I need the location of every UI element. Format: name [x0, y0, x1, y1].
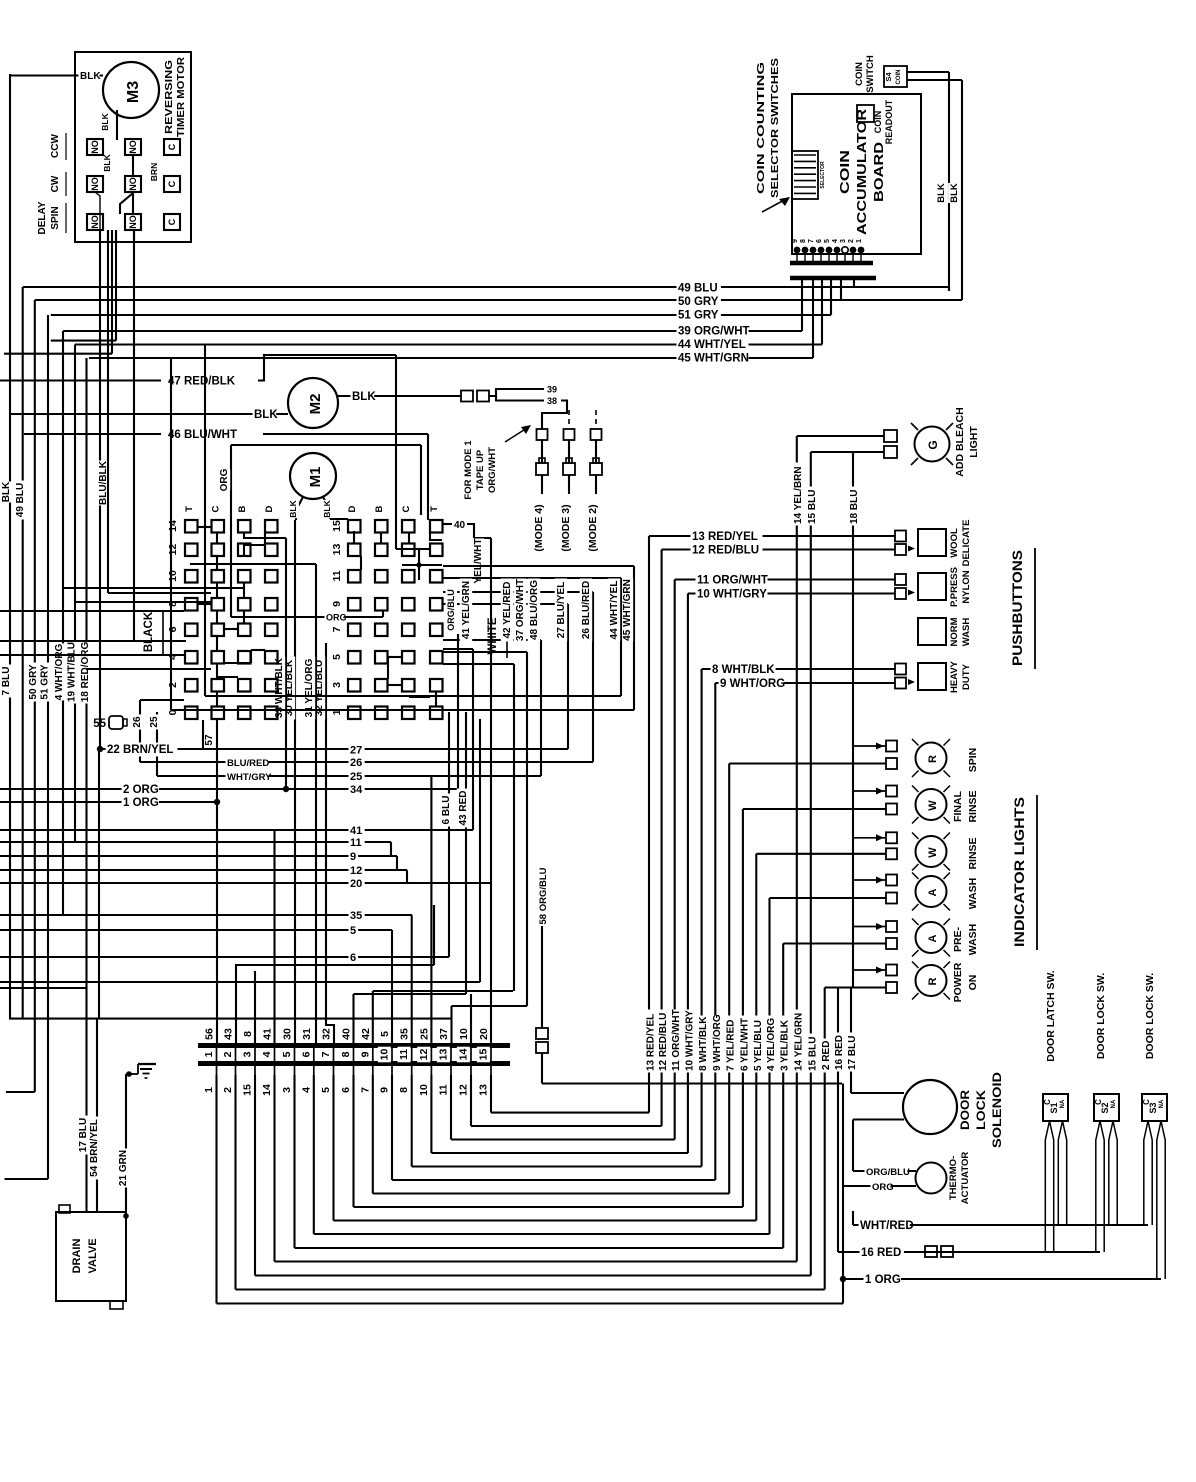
wire corner row y994: [354, 993, 467, 995]
svg-text:6: 6: [300, 1051, 312, 1057]
svg-text:C: C: [167, 180, 177, 187]
svg-text:LOCK: LOCK: [974, 1090, 988, 1130]
svg-text:5: 5: [350, 925, 356, 937]
thermo actuator: [916, 1163, 947, 1194]
svg-text:8: 8: [398, 1087, 410, 1093]
svg-text:BLK: BLK: [254, 409, 278, 421]
connector 16 RED: [925, 1246, 937, 1257]
svg-text:26: 26: [350, 757, 362, 769]
svg-text:25: 25: [418, 1028, 430, 1040]
wire light row final rinse: [743, 808, 886, 810]
svg-text:41: 41: [350, 825, 362, 837]
timer matrix WHITE section: [348, 520, 361, 533]
svg-text:ORG/BLU: ORG/BLU: [866, 1167, 910, 1178]
contact NO delay-spin CCW: [87, 139, 103, 155]
svg-text:14: 14: [167, 520, 179, 532]
wire 13 RED/YEL row: [649, 535, 895, 537]
label 14 YEL/BRN: [792, 463, 805, 526]
svg-text:7: 7: [808, 239, 815, 243]
wire 50 GRY: [840, 280, 842, 300]
svg-text:20: 20: [350, 878, 362, 890]
wire 25 left leg: [156, 712, 158, 776]
svg-text:7: 7: [331, 626, 343, 632]
svg-text:M1: M1: [307, 467, 324, 488]
wire 42 YEL/RED hook: [443, 663, 514, 665]
svg-text:55: 55: [93, 718, 106, 730]
harness U wire pin10: [391, 1104, 393, 1180]
wire ORG/BLU hook: [457, 634, 459, 789]
wire 17 BLU vertical right: [850, 988, 852, 1094]
svg-text:COIN COUNTING: COIN COUNTING: [755, 62, 767, 194]
svg-text:8: 8: [340, 1051, 352, 1057]
svg-text:2: 2: [222, 1051, 234, 1057]
wire 26 BLU/RED hook: [443, 591, 593, 593]
svg-text:ORG/BLU: ORG/BLU: [446, 589, 456, 631]
svg-text:DELICATE: DELICATE: [961, 520, 972, 567]
svg-text:BLK: BLK: [322, 499, 332, 517]
svg-text:ORG: ORG: [219, 468, 230, 491]
svg-text:9: 9: [792, 239, 799, 243]
svg-text:14 YEL/BRN: 14 YEL/BRN: [793, 466, 804, 524]
svg-text:11: 11: [331, 570, 343, 581]
wire 9 row: [0, 855, 397, 857]
svg-text:19 WHT/BLU: 19 WHT/BLU: [67, 642, 78, 702]
wire 26 left leg: [139, 700, 141, 762]
wire ORG row: [843, 1185, 916, 1187]
svg-text:42: 42: [360, 1028, 372, 1040]
contact NO delay spin: [87, 214, 103, 230]
wire M2 BLK left: [9, 413, 288, 415]
svg-text:HEAVY: HEAVY: [949, 660, 960, 693]
door lock solenoid: [903, 1080, 957, 1134]
svg-text:5: 5: [824, 239, 831, 243]
svg-text:27: 27: [350, 745, 362, 757]
svg-text:40: 40: [454, 520, 466, 531]
svg-text:BLK: BLK: [1, 481, 12, 502]
svg-text:13: 13: [331, 544, 343, 556]
wire corner row y991: [373, 990, 513, 992]
svg-text:NORM: NORM: [949, 617, 960, 646]
svg-text:BLU/RED: BLU/RED: [227, 758, 269, 769]
wire 30 YEL/BLK pin5: [294, 520, 296, 1044]
svg-text:3: 3: [281, 1087, 293, 1093]
svg-text:REVERSING: REVERSING: [164, 60, 175, 134]
svg-text:41: 41: [262, 1028, 274, 1040]
harness connector bottom labels: [216, 1066, 218, 1075]
svg-text:56: 56: [204, 1028, 216, 1040]
svg-text:WOOL: WOOL: [949, 528, 960, 558]
svg-text:ON: ON: [967, 975, 979, 991]
svg-text:16 RED: 16 RED: [834, 1035, 845, 1070]
wire solenoid upper: [851, 1092, 904, 1094]
svg-text:A: A: [927, 888, 939, 896]
svg-text:DOOR LOCK SW.: DOOR LOCK SW.: [1144, 973, 1156, 1059]
svg-text:5: 5: [281, 1051, 293, 1057]
contact C spin: [164, 214, 180, 230]
svg-text:BLK: BLK: [288, 499, 298, 517]
wire 16 RED vertical: [837, 988, 839, 1253]
svg-text:B: B: [374, 505, 385, 512]
svg-text:DELAY: DELAY: [37, 201, 48, 234]
svg-text:40: 40: [341, 1028, 353, 1040]
svg-text:12: 12: [458, 1084, 470, 1096]
harness U wire pin5: [293, 1104, 295, 1248]
wire 12 RED/BLU row: [662, 548, 895, 550]
wire 39 ORG/WHT: [801, 280, 803, 331]
wire row to matrix y611: [0, 610, 184, 612]
wire 49 BLU left vertical: [22, 287, 24, 1019]
svg-text:9: 9: [331, 601, 343, 607]
svg-text:13 RED/YEL: 13 RED/YEL: [646, 1014, 657, 1071]
svg-text:30: 30: [282, 1028, 294, 1040]
wire 16 RED row: [838, 1251, 1100, 1253]
arrow for mode 1: [505, 428, 527, 442]
svg-text:5: 5: [331, 654, 343, 660]
svg-text:44 WHT/YEL: 44 WHT/YEL: [609, 581, 620, 640]
wire light row prewash: [783, 942, 886, 944]
svg-text:10 WHT/GRY: 10 WHT/GRY: [684, 1010, 695, 1071]
wire 58 ORG/BLU: [541, 886, 543, 1028]
wire 43 RED vertical: [465, 712, 467, 994]
wire 18 RED/ORG vertical: [85, 358, 87, 1212]
harness U wire pin4: [273, 1104, 275, 1262]
mode connector column (MODE 2): [595, 410, 597, 428]
svg-text:NO: NO: [90, 215, 100, 229]
svg-text:1 ORG: 1 ORG: [123, 797, 159, 809]
svg-text:39 ORG/WHT: 39 ORG/WHT: [678, 326, 750, 338]
harness U wire pin14: [470, 1104, 472, 1126]
wire 1 ORG row: [843, 1278, 1161, 1280]
harness riser wire 5 YEL/BLU: [755, 854, 757, 1221]
svg-text:8 WHT/BLK: 8 WHT/BLK: [712, 664, 775, 676]
svg-text:SPIN: SPIN: [967, 748, 979, 773]
svg-text:SPIN: SPIN: [50, 206, 61, 229]
svg-text:14: 14: [458, 1049, 470, 1061]
wire light row rinse: [756, 853, 886, 855]
svg-text:NA: NA: [1111, 1099, 1117, 1108]
wire 48 BLU/ORG hook: [443, 639, 541, 641]
svg-text:COIN: COIN: [854, 62, 865, 86]
svg-text:12: 12: [350, 865, 362, 877]
svg-text:10: 10: [167, 570, 179, 582]
wire jumper row y353: [4, 353, 112, 355]
mode connector column (MODE 3): [568, 410, 570, 428]
harness riser wire 11 ORG/WHT: [674, 580, 676, 1140]
harness connector bar upper: [198, 1043, 510, 1048]
svg-text:R: R: [927, 977, 939, 985]
svg-text:BLK: BLK: [100, 112, 110, 130]
wire M1 right to D15: [330, 518, 348, 520]
svg-text:43: 43: [223, 1028, 235, 1040]
harness connector pin numbers: [202, 1050, 215, 1059]
svg-text:PRE-: PRE-: [952, 926, 964, 952]
wire 44 WHT/YEL mid vertical: [204, 345, 206, 697]
svg-text:M2: M2: [307, 394, 324, 415]
svg-text:D: D: [347, 505, 358, 512]
svg-text:57: 57: [204, 734, 215, 746]
switch S1 legs: [1045, 1121, 1049, 1252]
svg-text:INDICATOR LIGHTS: INDICATOR LIGHTS: [1012, 797, 1027, 947]
svg-text:READOUT: READOUT: [884, 99, 894, 144]
svg-text:34: 34: [350, 784, 363, 796]
harness wires below connector: [215, 1075, 217, 1104]
harness U wire pin2: [234, 1104, 236, 1290]
svg-text:4: 4: [832, 239, 839, 243]
pin upper wires: [273, 830, 275, 1044]
wire 9 WHT/ORG row: [715, 682, 895, 684]
wire 17 BLU drain: [0, 987, 87, 989]
svg-text:20: 20: [478, 1028, 490, 1040]
svg-text:45 WHT/GRN: 45 WHT/GRN: [678, 353, 749, 365]
wire 27 BLU/YEL hook: [443, 603, 568, 605]
harness U wire pin8: [352, 1104, 354, 1207]
harness riser wire 13 RED/YEL: [648, 536, 650, 1113]
svg-text:T: T: [184, 506, 195, 512]
svg-text:2: 2: [848, 239, 855, 243]
svg-text:9: 9: [379, 1087, 391, 1093]
svg-text:ACCUMULATOR: ACCUMULATOR: [854, 108, 869, 235]
coin switch S4 box: [884, 66, 907, 87]
svg-text:TAPE UP: TAPE UP: [475, 449, 486, 490]
door switch S2: [1094, 1094, 1119, 1121]
svg-text:S4: S4: [884, 72, 893, 82]
svg-text:58 ORG/BLU: 58 ORG/BLU: [538, 867, 549, 924]
wire row to matrix y593: [108, 592, 211, 594]
svg-text:37 ORG/WHT: 37 ORG/WHT: [515, 579, 526, 641]
svg-text:A: A: [927, 934, 939, 942]
pushbutton P.PRESS NYLON: [918, 573, 946, 600]
svg-text:15: 15: [331, 520, 343, 532]
wire 22 BRN/YEL / 27: [97, 746, 103, 752]
indicator light A WASH: [916, 876, 947, 907]
svg-text:(MODE 4): (MODE 4): [533, 504, 545, 551]
wire M2 BLK right: [338, 395, 461, 397]
matrix BLACK internal jumpers: [197, 526, 211, 528]
svg-text:54 BRN/YEL: 54 BRN/YEL: [89, 1119, 100, 1177]
wire 19 WHT/BLU vertical: [74, 345, 76, 843]
svg-text:S1: S1: [1049, 1102, 1059, 1113]
harness U wire pin7: [332, 1104, 334, 1221]
svg-text:11 ORG/WHT: 11 ORG/WHT: [697, 575, 768, 587]
svg-text:39: 39: [547, 385, 557, 395]
svg-text:C: C: [401, 505, 412, 512]
svg-text:FOR MODE 1: FOR MODE 1: [463, 440, 474, 500]
harness U wire pin9: [372, 1104, 374, 1194]
indicator light W RINSE: [916, 836, 947, 867]
svg-text:BLK: BLK: [352, 391, 376, 403]
svg-text:C: C: [167, 143, 177, 150]
svg-text:17 BLU: 17 BLU: [847, 1036, 858, 1070]
svg-text:BLK: BLK: [80, 71, 101, 82]
svg-text:BLACK: BLACK: [143, 611, 155, 652]
svg-text:27 BLU/YEL: 27 BLU/YEL: [556, 582, 567, 639]
svg-text:DOOR LOCK SW.: DOOR LOCK SW.: [1095, 973, 1107, 1059]
svg-text:WASH: WASH: [961, 618, 972, 647]
svg-text:SELECTOR: SELECTOR: [820, 161, 826, 189]
wire 18 BLU bus: [852, 452, 854, 988]
svg-text:P.PRESS: P.PRESS: [949, 567, 960, 607]
svg-text:BLK: BLK: [949, 183, 960, 203]
svg-text:DOOR: DOOR: [958, 1090, 972, 1130]
label BLK wires: [935, 183, 947, 203]
svg-text:50 GRY: 50 GRY: [678, 296, 719, 308]
svg-text:11: 11: [438, 1084, 450, 1095]
harness riser wire 9 WHT/ORG: [714, 683, 716, 1180]
pushbutton WOOL DELICATE: [918, 529, 946, 556]
svg-text:ORG/WHT: ORG/WHT: [487, 447, 498, 493]
svg-text:W: W: [927, 847, 939, 858]
svg-text:47 RED/BLK: 47 RED/BLK: [168, 376, 236, 388]
svg-text:D: D: [264, 505, 275, 512]
wire 57 pin1 vertical: [216, 719, 218, 1044]
svg-text:10: 10: [379, 1049, 391, 1061]
svg-text:R: R: [927, 755, 939, 763]
svg-text:35: 35: [399, 1028, 411, 1040]
svg-text:DOOR LATCH SW.: DOOR LATCH SW.: [1045, 970, 1057, 1061]
coin accumulator board box: [792, 94, 921, 254]
motor M2: [288, 378, 338, 428]
wire ORG/BLU row: [853, 1170, 916, 1172]
svg-text:18 RED/ORG: 18 RED/ORG: [80, 641, 91, 702]
svg-text:2 RED: 2 RED: [821, 1041, 832, 1070]
connector 55: [109, 716, 123, 729]
svg-text:41 YEL/GRN: 41 YEL/GRN: [461, 581, 472, 639]
svg-text:8 WHT/BLK: 8 WHT/BLK: [698, 1016, 709, 1071]
wire 8 row to pin3: [0, 981, 480, 983]
svg-text:BLK: BLK: [936, 183, 947, 203]
svg-text:25: 25: [350, 771, 362, 783]
svg-text:31: 31: [301, 1028, 313, 1040]
wire 1 ORG row: [0, 801, 217, 803]
wire 41 row: [0, 829, 473, 831]
svg-text:ORG: ORG: [326, 613, 347, 623]
svg-text:NO: NO: [90, 140, 100, 154]
svg-text:WHT/RED: WHT/RED: [860, 1220, 914, 1232]
wire 20 row: [0, 882, 491, 884]
svg-text:4: 4: [300, 1087, 312, 1093]
wire 11 ORG/WHT row: [675, 578, 895, 580]
svg-text:G: G: [926, 440, 940, 449]
svg-text:S3: S3: [1148, 1102, 1158, 1113]
motor M1: [290, 453, 336, 499]
svg-text:49 BLU: 49 BLU: [15, 483, 26, 517]
svg-text:33 WHT/BLK: 33 WHT/BLK: [274, 657, 285, 718]
svg-text:42 YEL/RED: 42 YEL/RED: [502, 581, 513, 638]
svg-text:FINAL: FINAL: [952, 790, 964, 821]
indicator light W RINSE: [916, 789, 947, 820]
wire 45 WHT/GRN hook: [443, 565, 634, 567]
svg-text:WASH: WASH: [967, 878, 979, 910]
label 15 BLU: [806, 487, 819, 526]
wire row to matrix y655: [0, 654, 186, 656]
svg-text:VALVE: VALVE: [87, 1238, 99, 1273]
wire 8 WHT/BLK row: [702, 668, 895, 670]
svg-text:6: 6: [816, 239, 823, 243]
timer motor box: [75, 52, 191, 242]
svg-text:TIMER MOTOR: TIMER MOTOR: [176, 56, 187, 137]
wire 26 row BLU/RED: [140, 761, 593, 763]
svg-text:8: 8: [242, 1031, 254, 1037]
svg-text:13: 13: [478, 1084, 490, 1096]
label 2 RED vertical: [820, 1039, 833, 1072]
wire 40 hook: [443, 523, 452, 525]
svg-text:15: 15: [478, 1049, 490, 1061]
svg-text:CW: CW: [50, 175, 61, 192]
svg-text:3: 3: [331, 682, 343, 688]
svg-text:(MODE 2): (MODE 2): [587, 504, 599, 551]
svg-text:WASH: WASH: [967, 924, 979, 956]
indicator light R ON: [916, 965, 947, 996]
svg-text:31 YEL/ORG: 31 YEL/ORG: [304, 658, 315, 717]
svg-text:6 BLU: 6 BLU: [441, 796, 452, 825]
svg-text:11: 11: [398, 1049, 410, 1060]
svg-text:LIGHT: LIGHT: [968, 426, 980, 458]
svg-text:11: 11: [350, 837, 362, 849]
wire 21 GRN: [117, 1149, 130, 1188]
harness riser wire 14 YEL/GRN: [796, 436, 798, 1262]
harness riser wire 2 RED: [824, 988, 826, 1290]
svg-text:38: 38: [547, 396, 557, 406]
wire 32 YEL/BLU pin7: [326, 643, 334, 1044]
svg-text:51 GRY: 51 GRY: [40, 664, 51, 700]
svg-text:15 BLU: 15 BLU: [807, 490, 818, 524]
svg-text:43 RED: 43 RED: [458, 790, 469, 825]
svg-text:10 WHT/GRY: 10 WHT/GRY: [697, 589, 767, 601]
svg-text:26: 26: [132, 716, 143, 728]
wire solenoid lower: [853, 1118, 904, 1120]
svg-text:8: 8: [800, 239, 807, 243]
contact NO spin mid: [125, 214, 141, 230]
wire 44 WHT/YEL hook: [443, 577, 621, 579]
harness U wire pin11: [411, 1104, 413, 1167]
svg-text:5: 5: [379, 1031, 391, 1037]
door switch S3: [1142, 1094, 1167, 1121]
wire 54 BRN/YEL drain: [96, 1019, 98, 1212]
board terminal dots: [794, 247, 801, 254]
svg-text:12 RED/BLU: 12 RED/BLU: [692, 545, 759, 557]
ground symbol: [125, 1074, 127, 1212]
harness connector pin stubs: [216, 1048, 218, 1061]
svg-text:6: 6: [167, 626, 179, 632]
switch S2 legs: [1096, 1121, 1100, 1252]
svg-text:12: 12: [418, 1049, 430, 1061]
svg-text:5 YEL/BLU: 5 YEL/BLU: [753, 1020, 764, 1071]
wire to 39 38 stubs: [489, 389, 544, 396]
harness riser wire 4 YEL/ORG: [768, 898, 770, 1234]
wire 4 WHT/ORG vertical: [62, 331, 64, 915]
wire 6 BLU vertical: [448, 712, 450, 957]
svg-text:13: 13: [438, 1049, 450, 1061]
svg-text:6: 6: [340, 1087, 352, 1093]
svg-text:2: 2: [222, 1087, 234, 1093]
wire 46 BLU/WHT: [24, 433, 161, 435]
wire jumper row y340: [51, 340, 116, 342]
harness U wire pin13: [450, 1104, 452, 1140]
pushbutton HEAVY DUTY: [918, 663, 946, 690]
harness riser wire 12 RED/BLU: [661, 550, 663, 1127]
svg-text:NA: NA: [1159, 1099, 1165, 1108]
wire row to matrix y669: [87, 668, 212, 670]
svg-text:21 GRN: 21 GRN: [118, 1150, 129, 1186]
harness U wire pin12: [430, 1104, 432, 1153]
svg-text:14 YEL/GRN: 14 YEL/GRN: [793, 1013, 804, 1071]
svg-text:DRAIN: DRAIN: [71, 1239, 83, 1274]
svg-text:3: 3: [242, 1051, 254, 1057]
wire contact jumpers: [132, 155, 134, 176]
wire light row power on: [825, 986, 886, 988]
contact NO CCW mid: [125, 139, 141, 155]
wire 44 WHT/YEL top: [821, 280, 823, 345]
